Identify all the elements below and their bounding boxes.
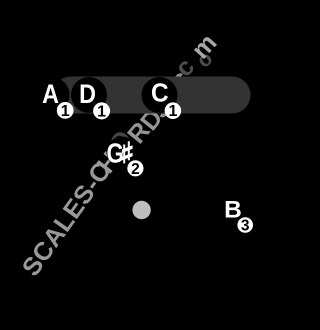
svg-text:C: C — [151, 79, 169, 108]
note G sharp marker circle — [107, 137, 138, 168]
finger badge 1 on C — [165, 102, 182, 120]
barre fret 1 — [53, 77, 251, 114]
finger badge 3 on B — [237, 217, 253, 234]
note D marker — [71, 77, 107, 113]
svg-text:1: 1 — [97, 103, 106, 120]
svg-text:3: 3 — [241, 217, 250, 234]
finger badge 2 on G sharp — [127, 160, 143, 178]
finger badge 1 on D — [93, 102, 110, 120]
note C marker — [142, 77, 178, 113]
svg-text:1: 1 — [168, 103, 177, 120]
svg-text:G: G — [106, 139, 124, 170]
watermark SCALES-CHORDS. light diagonal — [17, 65, 195, 281]
fretboard inlay dot — [132, 201, 150, 219]
svg-text:1: 1 — [61, 103, 70, 120]
finger badge 1 on A — [57, 102, 74, 120]
svg-text:2: 2 — [131, 161, 140, 178]
note A marker — [34, 77, 70, 113]
note B label — [224, 197, 242, 224]
svg-text:B: B — [224, 197, 242, 224]
svg-text:D: D — [79, 80, 96, 110]
svg-text:A: A — [42, 80, 59, 110]
note G sharp label — [106, 139, 132, 170]
watermark com tail — [170, 29, 223, 82]
